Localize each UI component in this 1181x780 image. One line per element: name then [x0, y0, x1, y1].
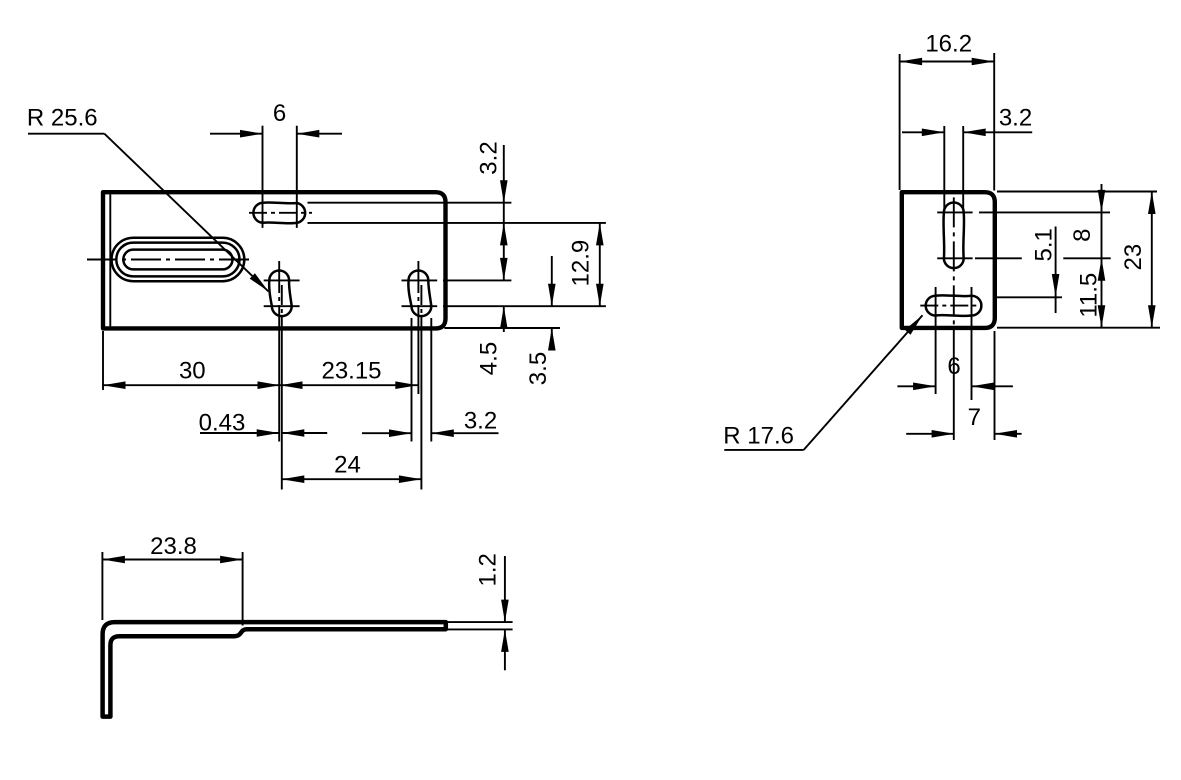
- right view: dim text 3.2: [999, 104, 1032, 131]
- main view: dim text 30: [179, 358, 206, 385]
- main view: middle slot lower-arc centerline: [281, 285, 283, 490]
- main view: large slot outer ring: [111, 238, 244, 281]
- right view: dim text 8: [1069, 229, 1096, 242]
- right view: dim 16.2 line: [900, 58, 995, 66]
- main view: right slot lower cross line: [402, 305, 438, 307]
- svg-text:7: 7: [968, 404, 981, 431]
- right view: bottom slot outline: [926, 295, 982, 316]
- svg-text:3.2: 3.2: [464, 408, 497, 435]
- right view: dim 5.1 line: [1052, 227, 1060, 314]
- right view: dim text 6: [947, 353, 960, 380]
- svg-text:23.15: 23.15: [321, 358, 381, 385]
- svg-text:6: 6: [273, 100, 286, 127]
- right view: vertical slot upper cross line: [937, 211, 972, 213]
- main view: dim text 3.5: [525, 352, 552, 385]
- main view: middle slot outline: [269, 271, 292, 317]
- right view: dim text 11.5: [1075, 273, 1102, 318]
- main view: extension line plate bottom right: [444, 327, 560, 329]
- right view: side plate outline: [902, 192, 995, 328]
- main view: middle slot upper cross line: [264, 279, 300, 281]
- bottom view: dim 23.8 extension left: [101, 552, 103, 620]
- main view: dim text 0.43: [199, 410, 246, 437]
- svg-text:12.9: 12.9: [567, 240, 594, 287]
- svg-text:4.5: 4.5: [475, 342, 502, 375]
- right view: vertical slot outline: [944, 203, 965, 269]
- right view: dim text 16.2: [925, 30, 972, 57]
- svg-text:6: 6: [947, 353, 960, 380]
- main view: top slot left extension line: [262, 126, 264, 228]
- right view: bottom slot left cross line: [935, 287, 937, 394]
- svg-text:23: 23: [1120, 244, 1147, 271]
- main view: right slot outline: [408, 271, 431, 317]
- main view: bend tangent line at left edge: [109, 194, 111, 326]
- right view: plate bottom extension: [997, 327, 1160, 329]
- main view: middle slot lower cross line: [264, 305, 300, 307]
- main view: dim 23.15 line: [280, 381, 418, 389]
- main view: extension line slots upper arc centers: [443, 279, 511, 281]
- right view: dim 3.2 line: [902, 129, 1032, 137]
- main view: dim 6 line and arrows: [210, 130, 342, 138]
- right view: dim 16.2 extension left: [899, 54, 901, 190]
- main view: right slot upper-arc centerline: [417, 261, 419, 394]
- main view: right slot right edge extension: [430, 318, 432, 442]
- right view: vertical centerline: [953, 197, 955, 440]
- bottom view: dim 23.8 line: [102, 556, 242, 564]
- main view: right slot left edge extension: [411, 318, 413, 442]
- svg-text:5.1: 5.1: [1031, 228, 1058, 261]
- right view: slot top-arc extension: [979, 211, 1110, 213]
- bottom view: dim 1.2 line: [501, 556, 509, 670]
- main view: extension line slots lower arc centers: [443, 305, 606, 307]
- bottom view: dim text 23.8: [150, 533, 197, 560]
- right view: slot bottom-arc extension: [975, 257, 1111, 259]
- main view: large slot horizontal centerline: [87, 259, 254, 261]
- svg-text:3.2: 3.2: [476, 141, 503, 174]
- svg-text:3.5: 3.5: [525, 352, 552, 385]
- right view: leader R 17.6: [723, 315, 922, 450]
- right view: bottom slot top edge extension: [994, 296, 1062, 298]
- bottom view: sheet top extension: [447, 621, 513, 623]
- main view: dim text 23.15: [321, 358, 381, 385]
- right view: right edge extension below: [994, 331, 996, 440]
- right view: dim 23 line: [1148, 192, 1156, 328]
- svg-text:R 25.6: R 25.6: [27, 105, 98, 132]
- bottom view: sheet bottom extension: [447, 628, 513, 630]
- svg-text:24: 24: [334, 452, 361, 479]
- right view: plate top extension: [997, 191, 1157, 193]
- right view: slot left extension: [943, 126, 945, 209]
- svg-text:1.2: 1.2: [475, 553, 502, 586]
- main view: dim text 24: [334, 452, 361, 479]
- main view: extension line top slot lower edge: [308, 222, 606, 224]
- right view: dim text 23: [1120, 244, 1147, 271]
- main view: large slot inner ring: [123, 250, 232, 270]
- main view: middle slot upper-arc centerline: [278, 261, 280, 442]
- bottom view: dim text 1.2: [475, 553, 502, 586]
- svg-text:R 17.6: R 17.6: [723, 422, 794, 449]
- main view: dim text 12.9: [567, 240, 594, 287]
- svg-text:8: 8: [1069, 229, 1096, 242]
- main view: leader R 25.6: [27, 105, 269, 292]
- main view: bracket plate outline (front view): [103, 192, 446, 328]
- bottom view: dim 23.8 extension right: [242, 552, 244, 626]
- right view: vertical slot lower cross line: [937, 257, 972, 259]
- right view: bottom slot centerline: [920, 305, 981, 307]
- main view: left edge extension below: [102, 331, 104, 390]
- main view: dim 30 line: [103, 381, 280, 389]
- right view: dim text 5.1: [1031, 228, 1058, 261]
- main view: top slot outline: [253, 202, 305, 223]
- main view: right slot upper cross line: [402, 279, 438, 281]
- svg-text:0.43: 0.43: [199, 410, 246, 437]
- main view: top slot centerline: [249, 212, 312, 214]
- main view: dim 3.2 bottom arrows: [362, 429, 499, 437]
- right view: dim 8 and 11.5 vertical line: [1098, 184, 1106, 328]
- main view: dim 4.5 lower arrow: [500, 306, 508, 332]
- main view: dim 0.43 arrows: [200, 429, 327, 437]
- svg-text:3.2: 3.2: [999, 104, 1032, 131]
- svg-text:30: 30: [179, 358, 206, 385]
- right view: dim 16.2 extension right: [993, 53, 995, 191]
- svg-text:16.2: 16.2: [925, 30, 972, 57]
- main view: dim text 6: [273, 100, 286, 127]
- main view: dim 3.5 vertical line: [548, 256, 556, 351]
- main view: dim text 3.2 right: [476, 141, 503, 174]
- main view: dim 24 line: [282, 475, 422, 483]
- main view: dim text 4.5: [475, 342, 502, 375]
- right view: bottom slot right cross line: [971, 287, 973, 400]
- svg-text:23.8: 23.8: [150, 533, 197, 560]
- svg-text:11.5: 11.5: [1075, 273, 1102, 318]
- right view: dim 6 line: [897, 383, 1013, 391]
- main view: large slot middle ring: [116, 243, 239, 277]
- main view: dim 3.2/4.5 vertical line upper part: [500, 145, 508, 280]
- main view: dim text 3.2 bottom: [464, 408, 497, 435]
- right view: dim 7 line: [906, 430, 1021, 438]
- main view: extension line top slot upper edge: [308, 202, 512, 204]
- right view: slot right extension: [962, 126, 964, 209]
- main view: right slot lower-arc centerline: [420, 285, 422, 490]
- main view: dim 12.9 vertical line: [596, 223, 604, 306]
- main view: top slot right extension line: [296, 126, 298, 228]
- right view: dim text 7: [968, 404, 981, 431]
- bottom view: bent profile outline: [103, 622, 446, 717]
